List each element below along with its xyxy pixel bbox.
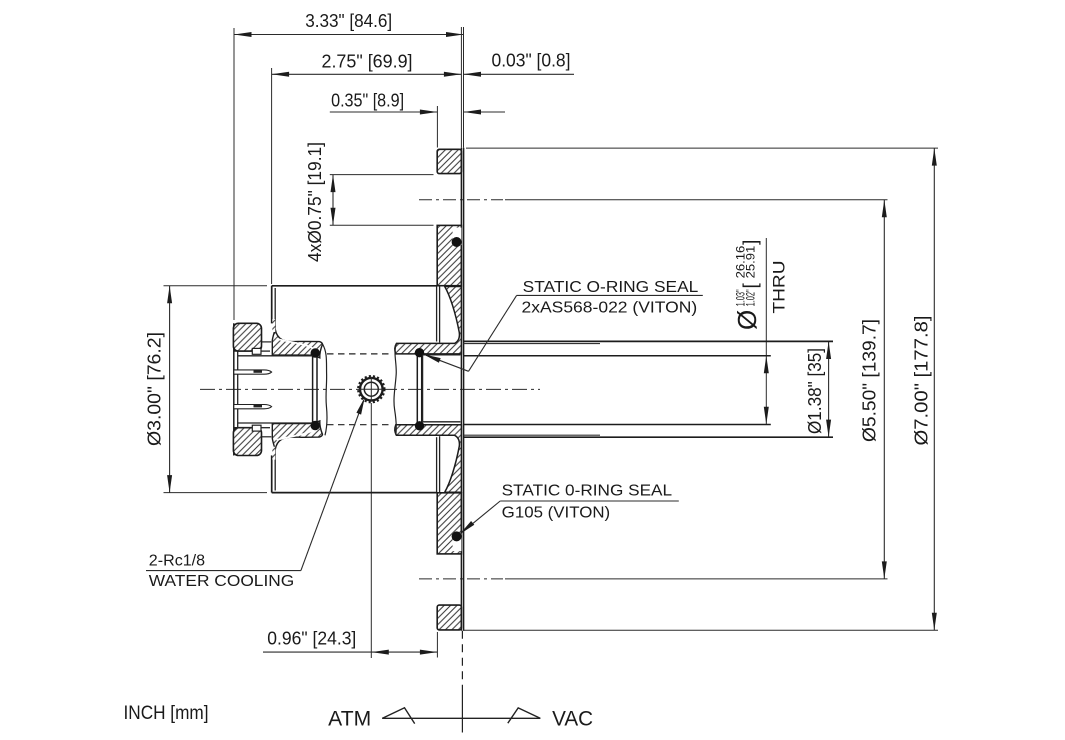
svg-text:Ø1.38" [35]: Ø1.38" [35]: [804, 348, 825, 434]
vacuum boundary solid line: [461, 689, 463, 733]
break line left: [323, 344, 328, 435]
main centerline: [200, 388, 540, 390]
extension line body left x=271.6: [271, 68, 273, 284]
shell engagement line bottom: [262, 436, 272, 438]
svg-text:ATM: ATM: [328, 708, 371, 731]
svg-text:Ø3.00" [76.2]: Ø3.00" [76.2]: [144, 332, 165, 446]
extension line left end x=234: [233, 28, 235, 320]
connector notch top: [252, 348, 261, 354]
dia3.00 extension lines: [164, 285, 268, 287]
tube bore lines: [464, 355, 771, 357]
connector shell block top: [233, 323, 261, 351]
hub hatched section upper-left: [272, 329, 322, 358]
hub cavity lines: [423, 354, 461, 356]
flange hatch block upper: [437, 225, 461, 285]
connector shell step top: [234, 350, 253, 352]
bell-flange junction lines bottom: [436, 437, 438, 492]
svg-text:2-Rc1/8: 2-Rc1/8: [149, 552, 205, 569]
dimension dia1.03 line: [765, 238, 767, 424]
leader G105: [500, 500, 679, 502]
dimension 0.03in line: [464, 73, 575, 75]
hub hatched section upper-right with fillet: [395, 287, 462, 354]
svg-text:STATIC 0-RING SEAL: STATIC 0-RING SEAL: [502, 483, 673, 500]
bolt hole extension lines: [330, 174, 434, 176]
flow symbol left: [382, 708, 415, 724]
dia7.00 extension lines: [466, 147, 938, 149]
connector shell block bottom: [233, 428, 261, 456]
connector cavity lines: [238, 355, 313, 357]
water port knurled circle: [358, 376, 384, 402]
connector left face lines: [233, 323, 235, 455]
flange hatch block lower: [437, 493, 461, 554]
tube outer bottom line: [464, 436, 833, 438]
dimension dia1.03 bore label: [732, 240, 762, 330]
svg-text:Ø7.00" [177.8]: Ø7.00" [177.8]: [911, 316, 932, 446]
hub hatched section lower-right with fillet: [395, 425, 462, 492]
o-ring AS568 right dots: [415, 348, 424, 357]
leader AS568: [517, 294, 703, 296]
extension line flange face bottom: [436, 632, 438, 658]
bell-flange junction lines top: [436, 286, 438, 342]
bolt centerline top: [419, 199, 503, 201]
svg-text:THRU: THRU: [770, 261, 789, 314]
bell left wall bottom: [271, 455, 273, 492]
svg-text:WATER COOLING: WATER COOLING: [149, 573, 294, 590]
dimension dia1.38 text: [804, 348, 825, 434]
connector notch bottom: [252, 425, 261, 431]
bolt centerline bottom: [419, 578, 503, 580]
svg-text:2xAS568-022 (VITON): 2xAS568-022 (VITON): [522, 300, 698, 317]
dimension dia7.00 line: [933, 148, 935, 630]
flow symbol line: [382, 717, 540, 719]
extension line flange left face: [436, 106, 438, 148]
flow symbol right: [508, 708, 540, 723]
pin 1: [234, 370, 272, 374]
dimension 4x bolt line: [332, 175, 334, 226]
flange hatch block top rim: [437, 149, 461, 173]
svg-text:Ø5.50" [139.7]: Ø5.50" [139.7]: [859, 319, 880, 442]
svg-text:G105 (VITON): G105 (VITON): [502, 505, 611, 522]
water port center cross: [370, 377, 372, 402]
o-ring AS568 right lines: [416, 356, 418, 423]
dimension 0.35in line right: [464, 111, 506, 113]
svg-text:0.35" [8.9]: 0.35" [8.9]: [331, 90, 404, 111]
extension lines plate right face: [460, 27, 462, 148]
svg-text:]: ]: [741, 240, 762, 245]
svg-text:2.75" [69.9]: 2.75" [69.9]: [322, 51, 413, 72]
svg-text:0.03" [0.8]: 0.03" [0.8]: [492, 50, 571, 71]
o-ring G105 bottom cross-section: [453, 534, 462, 552]
shell engagement line top: [262, 341, 272, 343]
dimension dia1.38 line: [828, 342, 830, 438]
svg-text:0.96" [24.3]: 0.96" [24.3]: [267, 628, 356, 649]
dimension 2.75in line: [272, 73, 462, 75]
svg-text:4xØ0.75" [19.1]: 4xØ0.75" [19.1]: [304, 142, 325, 262]
dia5.50 extension lines: [505, 199, 888, 201]
dimension 4x bolt hole text: [304, 142, 325, 262]
svg-text:VAC: VAC: [552, 707, 593, 730]
water port inner circle: [364, 382, 378, 396]
dimension 0.35in line left: [330, 111, 438, 113]
connector shell step bottom: [234, 427, 253, 429]
dimension dia3.00 line: [169, 286, 171, 493]
bell left wall top: [271, 286, 273, 324]
hub hatched section lower-left: [272, 421, 322, 450]
svg-text:1.02": 1.02": [746, 289, 758, 306]
hidden bore lines in break region: [327, 353, 392, 355]
bell outer bottom line: [272, 492, 438, 494]
o-ring AS568 left lines: [312, 356, 314, 423]
break line right: [394, 343, 397, 435]
tube outer top line: [464, 340, 833, 342]
bell wall hatch strip top: [272, 319, 275, 332]
THRU text: [770, 261, 789, 314]
bell outer top line: [272, 285, 438, 287]
svg-text:25.91: 25.91: [746, 246, 758, 279]
o-ring AS568 left dots: [311, 348, 320, 357]
dimension dia5.50 text: [859, 319, 880, 442]
dimension dia5.50 line: [883, 200, 885, 579]
tube secondary bottom line: [464, 434, 600, 436]
flange hatch block bottom rim: [437, 605, 461, 630]
vacuum boundary dashed line: [461, 631, 463, 689]
extension line water port vertical: [370, 403, 372, 658]
svg-text:INCH [mm]: INCH [mm]: [124, 703, 209, 724]
o-ring G105 top cross-section: [453, 228, 462, 246]
svg-text:STATIC O-RING SEAL: STATIC O-RING SEAL: [523, 279, 699, 296]
bell wall hatch strip bottom: [272, 447, 275, 460]
adapter plate 0.03in: [460, 148, 462, 631]
svg-text:3.33" [84.6]: 3.33" [84.6]: [305, 10, 392, 31]
svg-text:Ø: Ø: [732, 310, 762, 330]
dimension 0.96 line: [263, 651, 437, 653]
leader water cooling: [146, 570, 301, 572]
svg-text:[: [: [741, 283, 762, 289]
dimension 3.33in line: [234, 34, 464, 36]
dimension dia3.00 text: [144, 332, 165, 446]
pin 2: [234, 405, 272, 409]
tube secondary top line: [464, 343, 600, 345]
dimension dia7.00 text: [911, 316, 932, 446]
